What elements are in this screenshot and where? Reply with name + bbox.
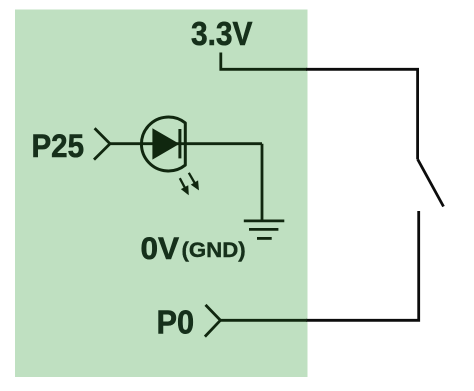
- svg-text:P25: P25: [32, 128, 85, 164]
- svg-text:P0: P0: [157, 304, 195, 341]
- svg-text:3.3V: 3.3V: [191, 16, 253, 53]
- svg-text:(GND): (GND): [182, 238, 246, 262]
- svg-text:0V: 0V: [141, 230, 180, 266]
